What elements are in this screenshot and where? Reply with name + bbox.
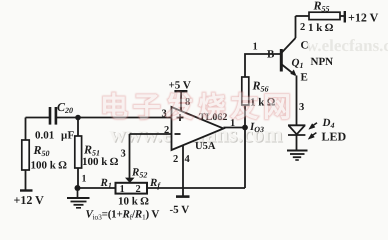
+5 V supply	[174, 90, 187, 92]
wire collector vertical	[295, 16, 297, 38]
output node IO3	[242, 125, 248, 131]
emitter arrowhead	[290, 70, 296, 77]
svg-text:2: 2	[136, 184, 141, 195]
transistor Q1	[281, 38, 295, 75]
+12 V terminal (right)	[344, 11, 346, 23]
svg-text:+5 V: +5 V	[169, 80, 191, 92]
wire wiper to op-amp pin2	[130, 133, 172, 135]
ground node under R51	[75, 185, 81, 191]
svg-text:+12 V: +12 V	[14, 193, 45, 207]
potentiometer R52 body (box)	[116, 183, 148, 194]
wire R51 top stub	[77, 118, 79, 137]
wire emitter vertical down to LED	[296, 76, 298, 125]
wire R56 top to base corner	[245, 54, 280, 77]
svg-text:B: B	[267, 49, 275, 61]
wire LED cathode to ground	[296, 136, 298, 151]
svg-text:电: 电	[100, 93, 128, 124]
svg-text:C: C	[301, 40, 309, 52]
svg-text:2: 2	[300, 22, 305, 33]
svg-text:E: E	[301, 72, 308, 84]
-5 V supply	[176, 195, 190, 198]
watermark www.elecfans.com	[109, 121, 283, 147]
resistor R51	[75, 136, 82, 168]
svg-text:烧: 烧	[198, 93, 226, 124]
wire R51 bottom to ground node	[77, 168, 79, 189]
svg-text:2: 2	[173, 154, 178, 165]
resistor R55	[309, 12, 340, 19]
svg-text:U5A: U5A	[195, 141, 216, 152]
ground (under LED)	[287, 151, 308, 161]
svg-text:4: 4	[185, 154, 191, 165]
resistor R50	[22, 140, 29, 170]
svg-text:100 k Ω: 100 k Ω	[82, 156, 119, 168]
svg-text:1: 1	[253, 42, 258, 53]
svg-text:100 k Ω: 100 k Ω	[31, 160, 68, 172]
wire R50 bottom to +12V bar	[25, 170, 27, 190]
capacitor C20	[49, 107, 57, 125]
svg-text:1: 1	[82, 174, 87, 185]
wire op-amp pin8 supply	[180, 92, 182, 112]
wire feedback riser up to output node	[244, 128, 246, 189]
ground (under R51)	[67, 188, 90, 208]
wire pot pin2 to feedback riser	[147, 187, 245, 189]
wire C20 left to left rail	[26, 117, 50, 119]
svg-text:w.elecfans.co: w.elecfans.co	[306, 36, 388, 55]
svg-text:1 k Ω: 1 k Ω	[308, 22, 334, 34]
svg-text:3: 3	[299, 102, 304, 113]
svg-text:发: 发	[164, 92, 193, 124]
svg-text:子: 子	[133, 93, 161, 124]
LED arrows	[308, 123, 317, 140]
svg-text:3: 3	[121, 149, 126, 160]
resistor R56	[242, 77, 249, 105]
svg-text:-5 V: -5 V	[170, 204, 190, 216]
wire op-amp output to node	[224, 127, 246, 129]
op-amp U5A	[172, 107, 224, 150]
wire top input rail (C20 right plate to op-amp pin3)	[57, 117, 172, 119]
wire pot wiper vertical	[129, 134, 131, 178]
wire R1 (ground node to pot pin1)	[77, 187, 116, 189]
svg-text:2: 2	[164, 125, 169, 136]
wire R55 right lead to +12V bar	[340, 15, 345, 17]
+12 V terminal (left)	[20, 189, 33, 191]
svg-text:LED: LED	[322, 130, 347, 144]
svg-text:NPN: NPN	[311, 56, 334, 68]
svg-text:10 k Ω: 10 k Ω	[118, 196, 149, 208]
wire R55 left lead	[296, 15, 310, 17]
svg-text:网: 网	[263, 93, 291, 124]
node A (cap/R51 junction)	[75, 115, 81, 121]
wire output node up to R56	[244, 105, 246, 128]
svg-text:+12 V: +12 V	[348, 11, 379, 25]
R52 wiper arrow	[125, 178, 135, 183]
svg-text:1: 1	[120, 184, 125, 195]
LED D4	[288, 125, 305, 135]
wire left rail down to R50	[25, 118, 27, 141]
wire op-amp pin4 down to -5V	[182, 146, 184, 196]
svg-text:友: 友	[230, 92, 258, 124]
